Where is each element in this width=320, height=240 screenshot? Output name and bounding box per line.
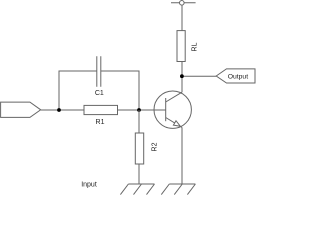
wire collector bbox=[181, 76, 183, 92]
wire output bbox=[182, 75, 216, 77]
wire base node to R2 bbox=[138, 110, 140, 133]
resistor R2 bbox=[135, 133, 143, 164]
wire C1 loop left bbox=[59, 71, 97, 110]
svg-text:RL: RL bbox=[191, 42, 198, 51]
power terminal VCC bbox=[180, 1, 185, 6]
node input junction bbox=[57, 108, 61, 112]
node collector junction bbox=[180, 74, 184, 78]
transistor Q1 collector stroke bbox=[166, 92, 182, 102]
wire emitter to ground bbox=[181, 127, 183, 184]
ground G1 bbox=[120, 184, 154, 195]
transistor Q1 emitter arrow bbox=[173, 121, 180, 127]
svg-text:C1: C1 bbox=[95, 90, 104, 97]
wire VCC to RL bbox=[181, 5, 183, 31]
svg-text:Input: Input bbox=[81, 181, 97, 188]
svg-text:R2: R2 bbox=[151, 142, 158, 151]
transistor Q1 body bbox=[154, 91, 191, 128]
connector Output tag bbox=[216, 69, 255, 83]
node base junction bbox=[137, 108, 141, 112]
wire supply rail horizontal bbox=[171, 2, 196, 4]
resistor RL bbox=[177, 31, 185, 62]
transistor Q1 emitter stroke bbox=[166, 118, 182, 128]
svg-text:Output: Output bbox=[228, 73, 249, 80]
capacitor C1 plates bbox=[97, 56, 101, 87]
wire C1 loop right bbox=[101, 71, 139, 110]
wire R1 to base node bbox=[118, 109, 166, 111]
ground G2 bbox=[161, 184, 195, 195]
wire input to R1 bbox=[41, 109, 84, 111]
resistor R1 bbox=[84, 105, 118, 114]
connector Input tag bbox=[1, 102, 41, 117]
wire RL to node collector bbox=[181, 62, 183, 77]
svg-text:R1: R1 bbox=[96, 119, 105, 126]
transistor Q1 base bar bbox=[165, 98, 167, 121]
wire R2 to ground bbox=[138, 164, 140, 184]
